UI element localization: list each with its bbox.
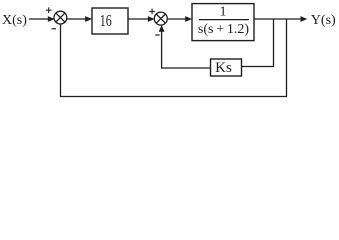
wire: outer feedback tap node B down, along bottom, up into S1 (61, 19, 287, 97)
svg-text:Y(s): Y(s) (311, 13, 336, 28)
plus sign at S2 upper input (149, 9, 155, 15)
arrowhead into S2 from left (148, 16, 155, 22)
wire: gain block 16 to summing junction S2 (128, 18, 149, 20)
wire: input X(s) to summing junction S1 (29, 18, 49, 20)
wire: S2 to plant block G (167, 18, 186, 20)
svg-text:X(s): X(s) (2, 13, 27, 28)
plus sign at S1 upper input (46, 7, 52, 13)
wire: tap node A down from output line to Ks input (right side) (242, 19, 274, 67)
svg-text:1: 1 (220, 5, 227, 20)
fraction bar (199, 19, 249, 21)
feedback block Ks (rectangle) (211, 59, 242, 76)
minus sign at S2 lower (feedback) input (155, 34, 159, 36)
arrowhead into plant block G (185, 16, 192, 22)
svg-text:Ks: Ks (215, 60, 232, 76)
wire: S1 to gain block 16 (67, 18, 86, 20)
summing junction S2 (circle with X) (154, 12, 167, 25)
summing junction S1 (circle with X) (54, 11, 67, 24)
wire: Ks output left then up into S2 (162, 30, 211, 69)
svg-text:16: 16 (100, 11, 112, 30)
plant block G(s) = 1/(s(s+1.2)) (rectangle) (192, 4, 254, 41)
wire: plant block G output to Y(s) (254, 18, 301, 20)
minus sign at S1 lower (feedback) input (52, 28, 56, 30)
arrowhead into gain block 16 (85, 16, 92, 22)
svg-text:s(s + 1.2): s(s + 1.2) (198, 22, 250, 37)
gain block 16 (rectangle) (92, 8, 128, 34)
arrowhead at output Y(s) (301, 16, 308, 22)
arrowhead into S1 (48, 16, 55, 22)
arrowhead up into S2 from Ks feedback (159, 25, 165, 32)
